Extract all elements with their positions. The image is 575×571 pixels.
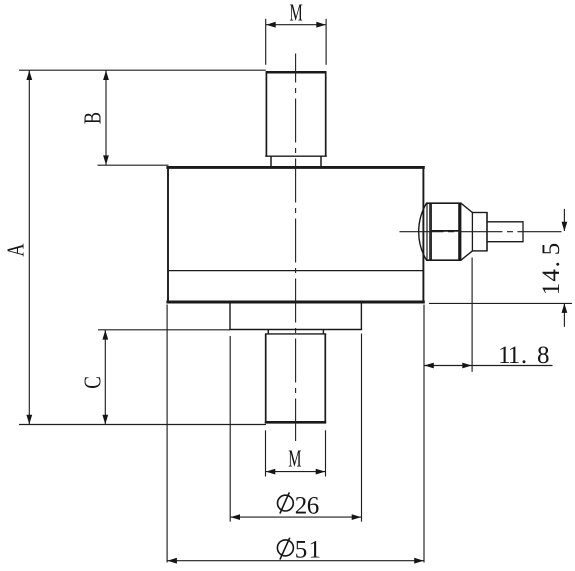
svg-text:B: B — [80, 112, 106, 124]
svg-text:5: 5 — [538, 243, 565, 256]
svg-text:M: M — [288, 446, 301, 472]
svg-text:C: C — [81, 376, 107, 389]
svg-text:A: A — [3, 243, 29, 257]
svg-text:5: 5 — [295, 537, 308, 564]
svg-text:M: M — [290, 0, 303, 26]
svg-text:.: . — [521, 342, 527, 369]
svg-text:6: 6 — [307, 493, 320, 520]
svg-text:1: 1 — [538, 283, 565, 296]
svg-text:.: . — [538, 261, 565, 267]
svg-text:1: 1 — [308, 537, 321, 564]
svg-text:1: 1 — [508, 342, 521, 369]
svg-text:2: 2 — [295, 493, 308, 520]
svg-text:4: 4 — [538, 269, 565, 282]
svg-text:8: 8 — [537, 342, 550, 369]
